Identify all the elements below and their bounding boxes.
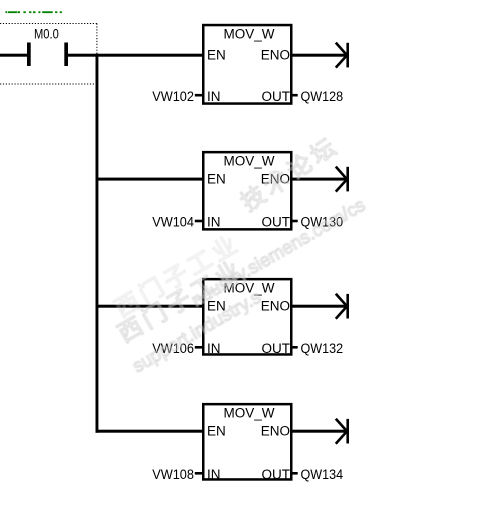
watermark url ndustry.siemens.com/cs [188,194,369,311]
tick VW104 to IN [195,220,202,223]
svg-text:MOV_W: MOV_W [223,405,274,420]
tick VW102 to IN [195,94,202,97]
open line arrow 3 [336,294,348,319]
svg-text:VW102: VW102 [152,89,194,104]
MOV_W block U4 box [203,404,291,479]
svg-text:ENO: ENO [261,47,290,62]
rung 2 wire [96,178,204,181]
wire ENO to arrow 2 [291,178,347,181]
svg-text:EN: EN [207,171,226,186]
svg-text:OUT: OUT [262,341,291,356]
watermark url support.industry.s [129,286,265,377]
svg-text:OUT: OUT [262,467,291,482]
rung 3 wire [96,305,204,308]
network title remnant (green dashes, clipped text) [5,11,61,13]
svg-text:IN: IN [207,467,221,482]
MOV_W block U2 box [203,152,291,229]
tick VW106 to IN [195,346,202,349]
rung 4 wire [96,430,204,433]
svg-text:IN: IN [207,89,221,104]
open line arrow 1 [336,43,348,68]
MOV_W block U1 box [203,25,291,104]
wire ENO to arrow 4 [291,430,347,433]
MOV_W block U3 box [203,279,291,354]
tick OUT to QW134 [291,472,297,475]
contact M0.0 right bar [64,43,68,67]
tick OUT to QW128 [291,94,297,97]
wire ENO to arrow 3 [291,305,347,308]
open line arrow 2 [336,167,348,192]
svg-text:M0.0: M0.0 [34,27,59,42]
svg-text:QW134: QW134 [301,467,344,482]
svg-text:MOV_W: MOV_W [223,26,274,41]
svg-text:QW132: QW132 [301,341,344,356]
svg-text:OUT: OUT [262,89,291,104]
contact M0.0 left bar [27,43,31,67]
wire ENO to arrow 1 [291,54,347,57]
watermark chinese 西门子工业 upper ghost copy [111,230,246,323]
watermark chinese 技术论坛 [236,132,344,217]
svg-text:OUT: OUT [262,215,291,230]
selection box (dotted rectangle around contact) [0,24,97,85]
svg-text:IN: IN [207,341,221,356]
svg-text:IN: IN [207,215,221,230]
wire: left rail to contact [0,54,27,57]
svg-text:EN: EN [207,47,226,62]
open line arrow 4 [336,419,348,444]
tick OUT to QW130 [291,220,297,223]
svg-text:QW128: QW128 [301,89,344,104]
watermark chinese 西门子工业 lower copy [114,255,249,348]
wire: contact to block U1 EN [68,54,203,57]
svg-text:MOV_W: MOV_W [223,153,274,168]
svg-text:VW108: VW108 [152,467,194,482]
svg-text:ENO: ENO [261,424,290,439]
svg-text:EN: EN [207,424,226,439]
svg-text:ENO: ENO [261,299,290,314]
svg-text:VW104: VW104 [152,215,194,230]
tick VW108 to IN [195,472,202,475]
tick OUT to QW132 [291,346,297,349]
vertical branch wire [96,54,99,433]
